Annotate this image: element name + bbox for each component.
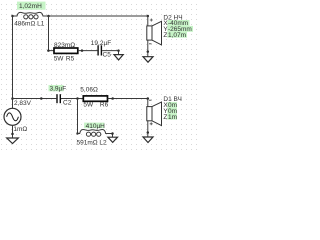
- label Y 0m (highlighted): [163, 108, 177, 115]
- label 486mΩ L1: [14, 21, 45, 28]
- node above D2 ground: [147, 50, 150, 53]
- label X 0m (highlighted): [163, 102, 177, 109]
- wire C2 to R6: [61, 98, 83, 100]
- value label 19,2µF: [91, 40, 111, 47]
- svg-text:C2: C2: [63, 99, 72, 106]
- wire C5 to ground: [102, 51, 118, 55]
- svg-text:2,83V: 2,83V: [14, 100, 32, 107]
- inductor L2: [78, 130, 113, 137]
- svg-text:410µH: 410µH: [86, 123, 106, 130]
- svg-text:1,02mH: 1,02mH: [19, 3, 42, 10]
- ground (L2): [108, 137, 118, 142]
- svg-text:823mΩ: 823mΩ: [54, 42, 75, 49]
- node at D1 corner: [147, 97, 150, 100]
- minus sign D1: [149, 99, 152, 101]
- label C2: [63, 99, 72, 106]
- node between R5 and C5: [81, 49, 84, 52]
- svg-text:591mΩ L2: 591mΩ L2: [77, 140, 108, 147]
- wire D2 to ground: [147, 40, 149, 57]
- label 5W R5: [54, 56, 75, 63]
- svg-text:5W: 5W: [83, 102, 94, 109]
- label D2 НЧ: [163, 14, 182, 21]
- speaker D2: [147, 21, 162, 45]
- svg-text:5,06Ω: 5,06Ω: [80, 87, 98, 94]
- value label 823mΩ: [54, 42, 75, 49]
- value label 5,06Ω: [80, 87, 98, 94]
- node above source ground: [11, 133, 14, 136]
- value label 410µH (highlighted): [84, 123, 105, 130]
- label 591mΩ L2: [77, 140, 108, 147]
- resistor R6: [83, 96, 107, 101]
- node at source top: [11, 97, 14, 100]
- svg-text:486mΩ L1: 486mΩ L1: [14, 21, 45, 28]
- svg-text:5W: 5W: [54, 56, 65, 63]
- wire middle rail source to C2: [13, 98, 57, 100]
- speaker D1: [147, 102, 162, 126]
- wire R6 to D1: [108, 99, 148, 107]
- ground (C5): [114, 55, 123, 60]
- svg-text:Z: Z: [163, 114, 167, 121]
- node after R6: [111, 97, 114, 100]
- label Y -265mm (highlighted): [163, 26, 193, 33]
- plus sign D1: [150, 122, 153, 125]
- svg-text:19,2µF: 19,2µF: [91, 40, 111, 47]
- ground (D1): [143, 137, 153, 143]
- wire D1 to ground: [147, 121, 149, 137]
- node on middle rail: [40, 97, 43, 100]
- plus sign D2: [150, 19, 153, 22]
- wire top rail to D2: [49, 15, 148, 17]
- svg-text:C5: C5: [103, 52, 112, 59]
- svg-text:Z: Z: [163, 32, 167, 39]
- node at L2 branch: [76, 97, 79, 100]
- label Z 1m (highlighted): [163, 114, 177, 121]
- ground (source): [7, 138, 19, 144]
- node at L2 corner: [76, 132, 78, 134]
- ground (D2): [143, 57, 153, 63]
- node at R5 input: [47, 49, 50, 52]
- resistor R5: [54, 48, 78, 53]
- wire R5 to C5: [78, 50, 98, 52]
- svg-text:1,07m: 1,07m: [168, 32, 186, 39]
- wire L2 to ground: [106, 134, 113, 138]
- label 5W R6: [83, 102, 108, 109]
- wire source to ground: [12, 125, 14, 138]
- svg-text:1m: 1m: [168, 114, 177, 121]
- label X -40mm (highlighted): [163, 20, 189, 27]
- capacitor C5: [97, 45, 102, 55]
- value label 3,9µF (highlighted): [49, 85, 67, 93]
- svg-text:1mΩ: 1mΩ: [13, 126, 27, 133]
- minus sign D2: [149, 43, 152, 45]
- label C5: [103, 52, 112, 59]
- capacitor C2: [56, 94, 61, 103]
- label 2,83V: [14, 100, 32, 107]
- label 1mΩ: [13, 126, 27, 133]
- wire left rail from L1 input down to source: [12, 16, 14, 108]
- label Z 1,07m (highlighted): [163, 32, 187, 39]
- svg-text:3,9µF: 3,9µF: [50, 86, 67, 93]
- label D1 ВЧ: [163, 96, 182, 103]
- value label 1,02mH (highlighted): [17, 2, 46, 11]
- voltage source V1: [4, 108, 21, 125]
- node above L2 ground: [111, 132, 114, 135]
- node after L1: [47, 15, 50, 18]
- node at C5 ground corner: [117, 49, 120, 52]
- node above D1 ground: [147, 131, 150, 134]
- wire L2 branch down: [78, 99, 81, 134]
- svg-text:R5: R5: [66, 56, 75, 63]
- node at top-left corner: [11, 15, 14, 18]
- inductor L1: [13, 12, 49, 18]
- wire down to D2: [147, 16, 149, 26]
- svg-text:R6: R6: [100, 102, 109, 109]
- node at D2 branch: [147, 15, 150, 18]
- wire down to R5: [49, 16, 55, 51]
